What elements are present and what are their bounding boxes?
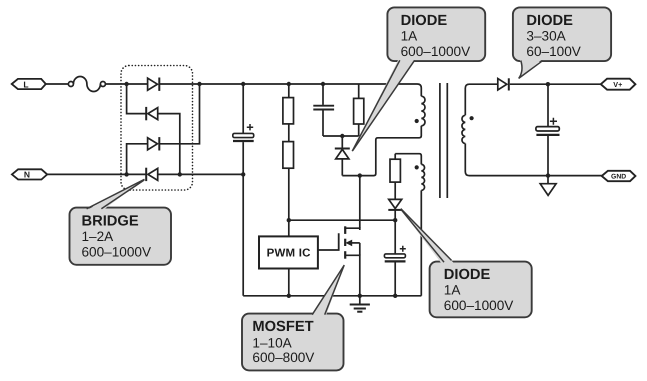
- terminal V+: [601, 79, 636, 90]
- wire bridge D2 out to N: [158, 114, 180, 175]
- node secondary phase dot: [470, 116, 474, 120]
- node N bridge in: [124, 172, 128, 176]
- diode D5 clamp: [335, 136, 350, 176]
- callout label mosfet: [242, 265, 344, 370]
- svg-text:BRIDGE: BRIDGE: [82, 214, 139, 230]
- svg-text:N: N: [24, 170, 30, 180]
- bridge dashed outline: [121, 66, 193, 191]
- capacitor C3 vcc: [384, 220, 405, 296]
- node bulk cap bottom: [241, 172, 245, 176]
- resistor R4 aux: [390, 154, 400, 200]
- svg-text:1–10A: 1–10A: [252, 335, 292, 350]
- svg-text:3–30A: 3–30A: [526, 28, 566, 43]
- node bulk cap top: [241, 82, 245, 86]
- svg-text:DIODE: DIODE: [526, 13, 573, 29]
- callout label bridge: [70, 179, 172, 265]
- wire bridge left vertical D3-N: [127, 144, 148, 175]
- node L bridge in: [124, 82, 128, 86]
- capacitor C2 snubber: [313, 84, 334, 136]
- capacitor C1 bulk: [233, 84, 254, 174]
- wire PWM bottom pin: [288, 269, 290, 296]
- wire output plus rail: [510, 83, 601, 85]
- terminal GND: [602, 171, 636, 181]
- ground: [350, 305, 370, 312]
- node vcc cap bottom: [393, 294, 397, 298]
- svg-text:GND: GND: [611, 174, 626, 181]
- svg-text:600–1000V: 600–1000V: [444, 298, 514, 313]
- terminal L: [12, 79, 46, 89]
- resistor R1 startup: [283, 84, 294, 124]
- node source ground: [358, 294, 362, 298]
- wire clamp to primary bottom: [342, 126, 421, 176]
- node output cap bottom: [546, 173, 550, 177]
- bridge diode D3: [148, 137, 160, 150]
- wire N line D4 to bulk cap: [158, 173, 244, 175]
- wire N line into bridge: [47, 173, 146, 175]
- svg-text:600–1000V: 600–1000V: [401, 44, 471, 59]
- svg-text:1A: 1A: [444, 283, 462, 298]
- transistor Q1 MOSFET: [345, 226, 360, 295]
- wire fuse to bridge: [105, 83, 147, 85]
- bridge diode D4: [146, 168, 158, 181]
- node vcc right: [393, 218, 397, 222]
- svg-text:L: L: [23, 79, 28, 89]
- node divider top: [287, 82, 291, 86]
- transformer T1 primary winding: [421, 96, 425, 126]
- node snubber cap top: [321, 82, 325, 86]
- wire VCC line: [289, 219, 395, 221]
- svg-text:DIODE: DIODE: [401, 13, 448, 29]
- transformer T1 secondary winding: [462, 84, 602, 175]
- wire N drop to bottom rail: [242, 174, 244, 295]
- svg-text:PWM IC: PWM IC: [267, 248, 311, 260]
- node snubber diode top: [340, 134, 344, 138]
- PWM IC U1: [259, 236, 318, 268]
- svg-text:600–1000V: 600–1000V: [82, 244, 152, 259]
- resistor R2 startup: [283, 124, 294, 220]
- capacitor C4 output: [536, 84, 560, 175]
- svg-text:600–800V: 600–800V: [252, 350, 314, 365]
- diode D7 output rectifier: [498, 78, 509, 90]
- node drain junction: [358, 173, 362, 177]
- node pwm ground: [287, 294, 291, 298]
- svg-text:1A: 1A: [401, 28, 419, 43]
- callout label snubber diode: [352, 7, 485, 151]
- resistor R3 snubber: [354, 84, 364, 136]
- node bridge plus out: [197, 82, 201, 86]
- svg-text:1–2A: 1–2A: [82, 229, 115, 244]
- wire snubber bottom: [323, 135, 359, 137]
- callout label output diode: [513, 7, 611, 78]
- wire drain vertical: [359, 176, 361, 229]
- node vcc left: [287, 218, 291, 222]
- transformer T1 aux winding: [395, 154, 424, 296]
- wire bridge left vertical D1-D2: [127, 84, 147, 114]
- node primary phase dot: [415, 119, 419, 123]
- svg-text:MOSFET: MOSFET: [252, 319, 313, 335]
- callout label aux diode: [401, 209, 532, 318]
- transformer T1 core: [440, 83, 447, 198]
- wire bottom rail: [243, 295, 421, 297]
- node aux phase dot: [415, 165, 419, 169]
- node output cap top: [546, 82, 550, 86]
- bridge diode D1: [148, 78, 160, 91]
- bridge diode D2: [146, 107, 158, 120]
- wire bridge D3 out to plus rail: [159, 84, 199, 144]
- diode D6 aux rectifier: [388, 199, 402, 220]
- wire plus rail: [159, 84, 421, 96]
- fuse F1: [68, 77, 105, 92]
- svg-text:V+: V+: [613, 80, 622, 89]
- wire PWM gate lead: [318, 233, 339, 250]
- ground output triangle: [540, 176, 556, 196]
- svg-text:DIODE: DIODE: [444, 267, 491, 283]
- wire source to ground: [359, 296, 361, 305]
- node bridge N out: [178, 172, 182, 176]
- wire PWM top pin: [288, 220, 290, 236]
- svg-text:60–100V: 60–100V: [526, 44, 580, 59]
- terminal N: [12, 169, 47, 179]
- wire L to fuse: [46, 83, 69, 85]
